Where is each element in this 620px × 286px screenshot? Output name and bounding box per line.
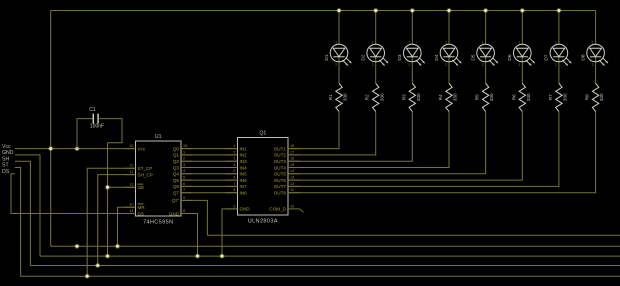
pin 16 OUT3 of Q1 [274,157,300,164]
svg-text:Q0: Q0 [173,146,180,151]
svg-text:330: 330 [416,93,421,101]
svg-text:D3: D3 [397,54,403,60]
svg-text:D5: D5 [470,54,476,60]
svg-text:OUT6: OUT6 [274,178,287,183]
svg-text:1: 1 [445,41,447,45]
pin 4 IN4 of Q1 [226,163,248,170]
wire C1 left terminal to Vcc [77,119,93,149]
svg-text:14: 14 [129,209,133,213]
junction Vcc rail / D1 [337,8,342,13]
pin 1 Q1 of U1 [173,150,192,157]
svg-text:2: 2 [555,63,557,67]
wire OUT5 to R5 [288,111,486,173]
svg-text:IN1: IN1 [240,146,248,151]
svg-text:ULN2803A: ULN2803A [248,219,278,225]
IC Q1 body outline [238,138,289,216]
wire SH riser to SH_CP [98,175,136,266]
pin 10 MR of U1 [125,203,146,210]
svg-text:2: 2 [519,63,521,67]
wire OUT6 to R6 [288,111,522,180]
wire D8 to R8 [595,57,597,84]
wire U1 GND to rail [181,214,198,257]
LED D6 [507,41,535,68]
svg-text:10: 10 [290,204,294,208]
svg-text:1: 1 [555,41,557,45]
svg-text:IN8: IN8 [240,191,248,196]
wire DS label to U1 pin 14 [11,174,136,214]
svg-text:1: 1 [409,41,411,45]
resistor R5 330 [475,83,495,111]
svg-text:Q7': Q7' [172,198,179,203]
wire GND vertical from C1 [107,143,109,256]
wire Q7 to IN8 [181,192,238,194]
R body zigzag [592,83,598,111]
svg-text:ST: ST [2,163,9,169]
wire OUT7 to R7 [288,111,559,186]
svg-text:15: 15 [183,144,187,148]
junction SH rail / SH riser [95,263,100,268]
pin 8 IN8 of Q1 [226,188,248,195]
wire ST label to rail [15,168,21,277]
svg-text:D1: D1 [324,54,330,60]
svg-text:U1: U1 [155,134,162,140]
wire Q7S serial out to DS-out rail [181,200,207,235]
R body zigzag [519,83,525,111]
svg-text:12: 12 [290,182,294,186]
svg-text:330: 330 [489,93,494,101]
pin 3 IN3 of Q1 [226,157,248,164]
wire D5 to R5 [485,57,487,84]
svg-text:2: 2 [592,63,594,67]
wire OE to GND vertical [108,186,136,188]
pin 7 IN7 of Q1 [226,182,248,189]
svg-text:R1: R1 [328,94,333,100]
LED D2 [361,41,389,68]
wire Q2 to IN3 [181,160,238,162]
svg-text:GND: GND [240,207,251,212]
svg-text:74HC595N: 74HC595N [143,220,173,226]
junction Vcc rail / D2 [373,8,378,13]
junction Vcc rail / D4 [447,8,452,13]
svg-text:IN2: IN2 [240,153,248,158]
svg-text:9: 9 [233,204,235,208]
pin 10 COM_D of Q1 [269,204,303,212]
R body zigzag [373,83,379,111]
svg-text:IN7: IN7 [240,184,248,189]
pin 3 Q3 of U1 [173,163,192,170]
R body zigzag [556,83,562,111]
R body zigzag [409,83,415,111]
svg-text:1: 1 [372,41,374,45]
svg-text:2: 2 [482,63,484,67]
svg-text:4: 4 [183,169,185,173]
junction ST rail / ST riser [85,274,90,279]
R body zigzag [336,83,342,111]
wire MR riser to Vcc rail [118,207,136,246]
junction Vcc wire / C1 left [75,146,80,151]
resistor R6 330 [511,83,531,111]
pin 14 OUT5 of Q1 [274,169,300,176]
svg-text:Q2: Q2 [173,159,180,164]
svg-text:SH: SH [2,156,9,162]
svg-text:2: 2 [372,63,374,67]
svg-text:Q1: Q1 [173,153,180,158]
wire rail Vcc [51,245,620,247]
pin 7 Q7 of U1 [173,188,192,195]
svg-text:11: 11 [130,170,134,174]
resistor R8 330 [585,83,605,111]
svg-text:13: 13 [129,183,133,187]
svg-text:OUT1: OUT1 [274,146,287,151]
pin 4 Q4 of U1 [173,169,192,176]
svg-text:3: 3 [233,157,235,161]
LED D1 [324,41,352,68]
svg-text:Q7: Q7 [173,191,180,196]
svg-text:Vcc: Vcc [2,144,11,150]
svg-text:DS: DS [2,169,10,175]
svg-text:16: 16 [129,144,133,148]
svg-text:15: 15 [290,163,294,167]
svg-text:7: 7 [233,182,235,186]
svg-text:6: 6 [233,176,235,180]
svg-text:13: 13 [290,176,294,180]
wire rail DS-out (Q7S daisy chain) [207,234,620,236]
junction Vcc wire / top rail vertical [48,146,53,151]
wire Vcc rail to D8 [595,11,597,45]
junction Vcc rail / D6 [520,8,525,13]
svg-text:3: 3 [183,163,185,167]
C1 plates [93,114,98,124]
svg-text:R8: R8 [585,94,590,100]
resistor R3 330 [401,83,421,111]
wire ULN GND to rail [222,209,238,256]
svg-text:D7: D7 [544,54,550,60]
svg-text:1: 1 [519,41,521,45]
resistor R1 330 [328,83,348,111]
pin 17 OUT2 of Q1 [274,150,300,157]
svg-text:18: 18 [290,144,294,148]
LED D4 [434,41,462,68]
pin 14 DS of U1 [125,209,144,216]
pin 5 Q5 of U1 [173,176,192,183]
IC U1 body outline [136,141,182,216]
svg-text:IN4: IN4 [240,165,248,170]
pin 2 Q2 of U1 [173,157,192,164]
pin 8 GND of U1 [169,209,192,216]
transistor-array Q1 ULN2803A [226,131,304,225]
svg-text:330: 330 [453,93,458,101]
svg-text:D2: D2 [361,54,367,60]
wire D3 to R3 [411,57,413,84]
junction Vcc rail / MR riser [115,244,120,249]
svg-text:COM_D: COM_D [269,207,286,212]
wire Vcc rail to D3 [411,11,413,45]
junction GND rail / GND vertical [105,254,110,259]
wire OUT2 to R2 [288,111,376,154]
svg-text:OUT2: OUT2 [274,153,287,158]
svg-text:Q5: Q5 [173,178,180,183]
resistor R7 330 [548,83,568,111]
svg-text:330: 330 [599,93,604,101]
svg-text:R6: R6 [511,94,516,100]
svg-text:ST_CP: ST_CP [138,166,153,171]
svg-text:330: 330 [563,93,568,101]
pin 6 Q6 of U1 [173,182,192,189]
svg-text:D6: D6 [507,54,513,60]
LED D3 [397,41,425,68]
svg-text:C1: C1 [89,107,96,113]
svg-text:D8: D8 [580,54,586,60]
wire Vcc rail to D5 [485,11,487,45]
svg-text:R4: R4 [438,94,443,100]
wire Vcc rail to D2 [375,11,377,45]
wire Vcc top rail [51,10,596,12]
svg-text:SH_CP: SH_CP [138,172,153,177]
svg-text:1: 1 [592,41,594,45]
svg-text:4: 4 [233,163,235,167]
IC U1 74HC595N shift register [125,134,193,226]
capacitor C1 100nF [77,107,122,149]
wire rail ST [21,275,620,277]
junction Vcc rail / C1 left [75,244,80,249]
svg-text:Q3: Q3 [173,165,180,170]
svg-text:5: 5 [183,176,185,180]
svg-text:OUT8: OUT8 [274,191,287,196]
svg-text:Q6: Q6 [173,184,180,189]
pin 12 ST_CP of U1 [125,164,153,171]
svg-text:7: 7 [183,188,185,192]
pin 15 OUT4 of Q1 [274,163,300,170]
pin 9 GND of Q1 [226,204,251,211]
svg-text:R7: R7 [548,94,553,100]
svg-text:OUT4: OUT4 [274,165,287,170]
svg-text:9: 9 [183,196,185,200]
wire OUT3 to R3 [288,111,412,161]
svg-text:Vcc: Vcc [138,146,146,151]
wire OUT1 to R1 [288,111,339,148]
svg-text:8: 8 [183,209,185,213]
junction Vcc rail / D3 [410,8,415,13]
wire ST riser to ST_CP [87,168,135,276]
svg-text:14: 14 [290,169,294,173]
pin 16 Vcc of U1 [125,144,146,151]
svg-text:R2: R2 [365,94,370,100]
wire OUT4 to R4 [288,111,449,167]
LED D7 [544,41,572,68]
R body zigzag [446,83,452,111]
junction GND rail / U1 GND [195,254,200,259]
wire Vcc label to U1 pin 16 [15,148,136,150]
svg-text:8: 8 [233,188,235,192]
pin 11 OUT8 of Q1 [274,188,300,195]
wire GND label to rail [15,155,40,256]
wire Q6 to IN7 [181,185,238,187]
junction Vcc rail / D5 [483,8,488,13]
svg-text:IN5: IN5 [240,172,248,177]
svg-text:1: 1 [233,144,235,148]
svg-text:1: 1 [183,150,185,154]
pin 18 OUT1 of Q1 [274,144,300,151]
wire C1 right terminal to GND vertical [99,119,122,143]
svg-text:1: 1 [482,41,484,45]
wire Vcc rail to D6 [521,11,523,45]
wire Vcc vertical to bottom rail [50,11,52,247]
LED D5 [470,41,498,68]
svg-text:16: 16 [290,157,294,161]
junction Vcc rail / D7 [556,8,561,13]
wire Q5 to IN6 [181,179,238,181]
svg-text:R3: R3 [401,94,406,100]
wire D7 to R7 [558,57,560,84]
resistor R4 330 [438,83,458,111]
pin 9 Q7' of U1 [172,196,192,203]
svg-text:17: 17 [290,150,294,154]
svg-text:100nF: 100nF [90,124,104,130]
pin 13 OUT6 of Q1 [274,176,300,183]
svg-text:OUT5: OUT5 [274,172,287,177]
svg-text:IN3: IN3 [240,159,248,164]
wire Q1 to IN2 [181,154,238,156]
wire OUT8 to R8 [288,111,596,192]
svg-text:GND: GND [169,211,180,216]
svg-text:2: 2 [335,63,337,67]
svg-text:2: 2 [183,157,185,161]
svg-text:Q1: Q1 [259,131,266,137]
svg-text:12: 12 [129,164,133,168]
svg-text:R5: R5 [475,94,480,100]
wire Vcc rail to D4 [448,11,450,45]
svg-text:2: 2 [409,63,411,67]
svg-text:OUT7: OUT7 [274,184,287,189]
svg-text:6: 6 [183,182,185,186]
svg-text:10: 10 [129,203,133,207]
wire Vcc rail to D1 [338,11,340,45]
pin 11 SH_CP of U1 [125,170,153,177]
wire D6 to R6 [521,57,523,84]
svg-text:330: 330 [379,93,384,101]
pin 2 IN2 of Q1 [226,150,248,157]
svg-text:11: 11 [290,188,294,192]
pin 15 Q0 of U1 [173,144,192,151]
wire SH label to rail [15,161,30,265]
svg-text:IN6: IN6 [240,178,248,183]
pin 6 IN6 of Q1 [226,176,248,183]
wire D4 to R4 [448,57,450,84]
R body zigzag [482,83,488,111]
wire Vcc rail to D7 [558,11,560,45]
wire rail GND [40,255,620,257]
pin 12 OUT7 of Q1 [274,182,300,189]
wire D1 to R1 [338,57,340,84]
svg-text:OUT3: OUT3 [274,159,287,164]
svg-text:2: 2 [445,63,447,67]
pin 1 IN1 of Q1 [226,144,248,151]
wire Q4 to IN5 [181,173,238,175]
junction OE / GND vertical [105,185,110,190]
wire Q0 to IN1 [181,148,238,150]
svg-text:MR: MR [138,205,146,210]
svg-text:330: 330 [343,93,348,101]
svg-text:Q4: Q4 [173,172,180,177]
resistor R2 330 [365,83,385,111]
LED D8 [580,41,608,68]
svg-text:DS: DS [138,211,144,216]
wire D2 to R2 [375,57,377,84]
svg-text:D4: D4 [434,54,440,60]
pin 13 OE of U1 [125,183,145,190]
svg-text:2: 2 [233,150,235,154]
svg-text:330: 330 [526,93,531,101]
pin 5 IN5 of Q1 [226,169,248,176]
svg-text:OE: OE [138,185,145,190]
svg-text:5: 5 [233,169,235,173]
wire rail SH [30,265,620,267]
junction GND rail / ULN GND [220,254,225,259]
wire Q3 to IN4 [181,167,238,169]
svg-text:GND: GND [2,150,14,156]
svg-text:1: 1 [335,41,337,45]
